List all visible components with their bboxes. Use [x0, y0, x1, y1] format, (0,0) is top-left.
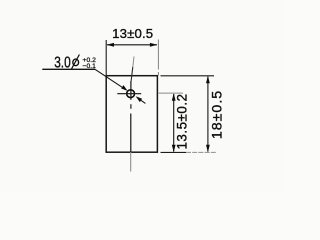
- label 13±0.5: [112, 26, 153, 41]
- dimension 13±0.5 extension line right: [157, 40, 159, 76]
- leader line horizontal: [42, 68, 95, 70]
- centerline vertical through hole: [130, 81, 132, 100]
- centerline vertical above hole: [131, 57, 134, 82]
- dimension line 13±0.5: [107, 43, 158, 47]
- hole 3.0 dia: [127, 90, 135, 98]
- extension line from bottom edge right: [161, 151, 218, 153]
- scan paper noise: [0, 0, 284, 193]
- svg-text:13.5±0.2: 13.5±0.2: [175, 93, 190, 149]
- dimension line 18±0.5: [206, 76, 210, 153]
- centerline horizontal through hole: [117, 93, 141, 95]
- extension line from hole center right: [159, 92, 184, 94]
- dimension line 13.5±0.2: [172, 93, 176, 152]
- extension line from top edge right: [161, 75, 215, 77]
- svg-text:13±0.5: 13±0.5: [112, 26, 153, 41]
- hole callout tolerance +0.2/-0.1: [83, 57, 97, 70]
- label 18±0.5: [210, 90, 226, 139]
- svg-text:18±0.5: 18±0.5: [210, 90, 226, 139]
- centerline dash below hole: [130, 104, 132, 109]
- dimension 13±0.5 extension line left: [105, 40, 107, 76]
- part outline: [106, 76, 157, 153]
- opposite arrow at hole lower right: [136, 96, 146, 103]
- hole callout text 3.0φ: [54, 54, 79, 71]
- label 13.5±0.2: [175, 93, 190, 149]
- leader line diagonal with arrow to hole: [95, 69, 128, 91]
- centerline vertical lower: [130, 114, 132, 172]
